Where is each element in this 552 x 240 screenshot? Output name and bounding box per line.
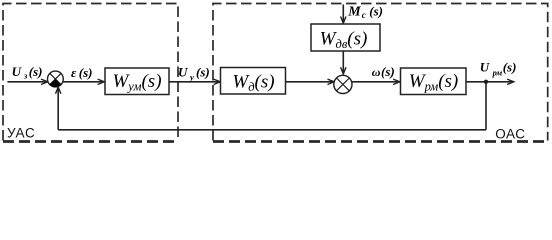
wire: feedback up segment to summer 1: [57, 87, 59, 130]
wire: W_ум to W_д: [169, 81, 221, 83]
block W_дв(s) disturbance transfer: [311, 24, 380, 51]
wire: input U_з to summer 1: [8, 81, 49, 83]
block W_рм(s) working mechanism: [401, 68, 467, 95]
wire: disturbance M_c input arrow: [342, 5, 344, 24]
wire: feedback down segment: [485, 82, 487, 130]
svg-text:УАС: УАС: [7, 126, 36, 141]
block W_ум(s) amplifier: [105, 68, 169, 95]
wire: summer 2 to W_рм: [352, 81, 400, 83]
summer 2: [334, 75, 352, 93]
svg-text:ОАС: ОАС: [495, 127, 525, 142]
block W_д(s) engine: [221, 68, 286, 95]
dashed box УАС (left subsystem frame): [3, 4, 178, 142]
svg-text:ω(s): ω(s): [372, 64, 395, 79]
wire: W_д to summer 2: [286, 81, 335, 83]
wire: feedback bottom segment: [58, 129, 486, 131]
wire: summer 1 to W_ум: [63, 81, 104, 83]
node: output branch point: [484, 80, 488, 84]
svg-text:ε(s): ε(s): [71, 65, 93, 80]
dashed box ОАС (right subsystem frame): [213, 4, 548, 142]
wire: W_дв to summer 2: [342, 51, 344, 74]
wire: W_рм to output: [467, 81, 515, 83]
summer 1 (comparison element): [48, 71, 64, 87]
